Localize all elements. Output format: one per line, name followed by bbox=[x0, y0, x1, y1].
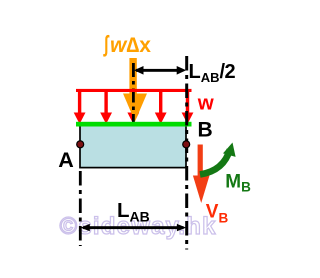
centerline at mid-span (dash-dot through resultant) bbox=[132, 63, 135, 122]
centerline at A bbox=[79, 171, 82, 246]
support point A (pin dot) bbox=[77, 141, 84, 148]
shear force arrow VB bbox=[193, 145, 210, 204]
svg-text:w∆x: w∆x bbox=[110, 34, 151, 57]
beam top surface (green) bbox=[76, 122, 192, 127]
load arrow 2 bbox=[100, 90, 112, 124]
distributed load top line bbox=[76, 89, 192, 92]
svg-text:B: B bbox=[198, 119, 213, 142]
label ∫wΔx bbox=[103, 31, 152, 57]
section point B (pin dot) bbox=[183, 141, 190, 148]
beam AB bbox=[80, 124, 186, 168]
centerline at B bbox=[185, 56, 188, 250]
load arrow 4 bbox=[155, 90, 167, 124]
load arrow 1 bbox=[74, 90, 86, 124]
bottom dimension line LAB bbox=[81, 224, 187, 231]
resultant force arrow ∫wΔx bbox=[123, 58, 147, 122]
svg-text:A: A bbox=[58, 148, 74, 172]
load arrow 3 (mid, behind resultant) bbox=[127, 90, 139, 124]
svg-text:w: w bbox=[197, 92, 214, 115]
dimension line LAB/2 bbox=[134, 66, 186, 75]
load arrow 5 (at B) bbox=[182, 90, 194, 124]
moment arrow MB bbox=[200, 143, 236, 175]
